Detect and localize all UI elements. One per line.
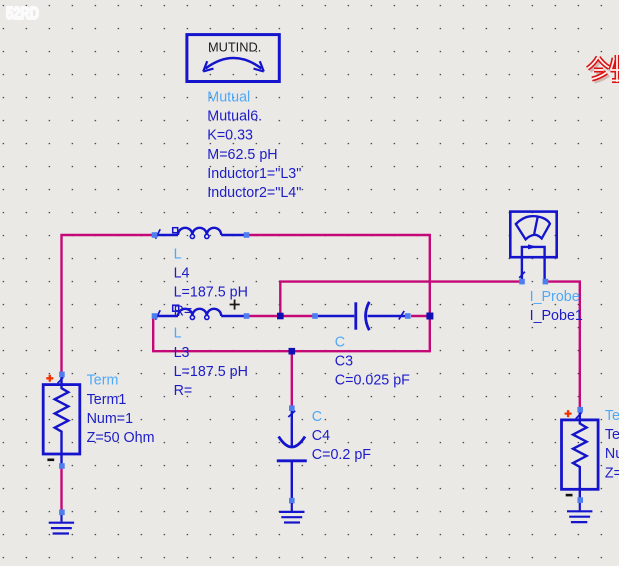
svg-text:Z=50 Ohm: Z=50 Ohm — [605, 465, 619, 481]
svg-text:K=0.33: K=0.33 — [207, 128, 253, 144]
wire Term1 bottom to ground — [60, 466, 62, 510]
minus Term2 — [566, 494, 573, 497]
I_Probe meter U1 — [510, 212, 556, 281]
watermark red chinese — [588, 55, 619, 82]
pin squares C3 — [312, 313, 410, 319]
junction node C4 top rail — [289, 348, 296, 355]
capacitor C3 — [318, 302, 405, 330]
label C3 — [335, 334, 410, 388]
svg-text:Mutual: Mutual — [207, 90, 250, 106]
svg-text:M=62.5 pH: M=62.5 pH — [207, 147, 277, 163]
svg-text:L: L — [174, 246, 182, 262]
junction node C3 right — [426, 313, 433, 320]
label C4 — [312, 409, 371, 463]
svg-text:Term2: Term2 — [605, 427, 619, 443]
label Term1 — [87, 373, 155, 446]
inductor L4 — [156, 228, 245, 239]
svg-text:C=0.2 pF: C=0.2 pF — [312, 447, 371, 463]
svg-text:Term: Term — [87, 373, 119, 389]
svg-text:Inductor1="L3": Inductor1="L3" — [207, 166, 301, 182]
svg-text:I_Probe: I_Probe — [530, 289, 580, 305]
pin squares C4 — [289, 405, 295, 503]
svg-text:C=0.025 pF: C=0.025 pF — [335, 373, 410, 389]
label L3 — [174, 326, 248, 399]
pin squares Term1 — [59, 372, 65, 469]
wire C3 pin2 to vertical — [411, 315, 430, 317]
svg-text:Term: Term — [605, 408, 619, 424]
svg-text:Mutual6.: Mutual6. — [207, 109, 262, 125]
plus Term1 — [46, 375, 53, 382]
svg-text:C: C — [335, 334, 345, 350]
wire I_Probe pin2 to Term2 — [548, 282, 580, 407]
junction node L3/C3 — [277, 313, 284, 320]
svg-text:R=: R= — [174, 304, 193, 320]
svg-text:I_Pobe1: I_Pobe1 — [530, 308, 583, 324]
svg-text:Num=2: Num=2 — [605, 446, 619, 462]
plus marker near L3 — [230, 300, 240, 310]
svg-text:C: C — [312, 409, 322, 425]
wire — [62, 235, 580, 510]
svg-text:Z=50 Ohm: Z=50 Ohm — [87, 430, 155, 446]
minus Term1 — [47, 458, 54, 461]
label I_Probe — [530, 289, 583, 324]
pin squares Term2 — [577, 407, 583, 503]
label L4 — [174, 246, 248, 319]
wire Term1 top to L4 pin1 — [62, 235, 153, 373]
svg-text:L: L — [174, 326, 182, 342]
term Term2 — [562, 410, 599, 501]
svg-text:C4: C4 — [312, 428, 330, 444]
label Mutual6 — [207, 90, 301, 202]
svg-text:52RD: 52RD — [6, 3, 39, 23]
svg-text:L4: L4 — [174, 265, 190, 281]
inductor L3 — [156, 305, 245, 320]
svg-text:Inductor2="L4": Inductor2="L4" — [207, 185, 301, 201]
pin squares I_Probe — [519, 279, 548, 285]
svg-text:R=: R= — [174, 383, 193, 399]
wire L4 pin2 right, down, bottom, up to L3 pin1 — [153, 235, 430, 351]
wire node junction up and across to I_Probe pin1 — [280, 282, 519, 316]
ground Term1 — [49, 514, 74, 534]
ground under C4 — [279, 503, 304, 523]
arrow I_Probe — [528, 244, 538, 249]
wire L3 pin2 to C3 pin1 — [249, 315, 313, 317]
pin square ground Term1 — [59, 510, 65, 516]
term Term1 — [43, 375, 80, 466]
mutual inductor MUTIND box — [187, 35, 279, 82]
svg-text:MUTIND.: MUTIND. — [208, 40, 261, 55]
svg-text:L=187.5 pH: L=187.5 pH — [174, 284, 248, 300]
plus Term2 — [565, 410, 572, 417]
pin squares L3 — [152, 313, 250, 319]
wire C4 stub from bottom rail — [291, 351, 293, 406]
svg-text:C3: C3 — [335, 353, 353, 369]
svg-text:L3: L3 — [174, 345, 190, 361]
pin squares L4 — [152, 232, 250, 238]
svg-text:Term1: Term1 — [87, 392, 127, 408]
capacitor C4 — [277, 410, 307, 500]
svg-text:Num=1: Num=1 — [87, 411, 134, 427]
ground Term2 — [567, 503, 592, 522]
label Term2 — [605, 408, 619, 481]
svg-text:L=187.5 pH: L=187.5 pH — [174, 364, 248, 380]
